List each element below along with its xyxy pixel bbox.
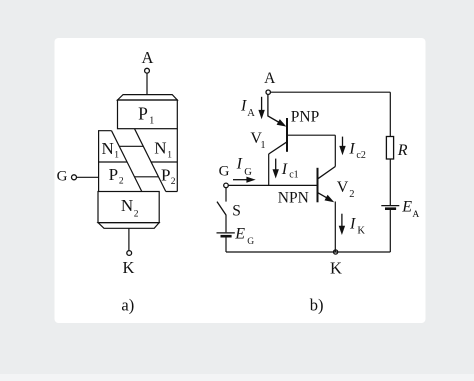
shear diagonal 1 bbox=[112, 131, 142, 192]
left column outline (N1/P2 left) bbox=[99, 131, 112, 192]
svg-text:G: G bbox=[247, 237, 254, 247]
terminal A circle (a) bbox=[145, 68, 150, 73]
label Ic2 bbox=[348, 140, 365, 161]
wire right branch to resistor bbox=[389, 92, 391, 136]
V2 collector diagonal bbox=[318, 167, 336, 179]
V1 emitter arrowhead (PNP) bbox=[277, 119, 287, 127]
wire V2 emitter to K bbox=[334, 202, 336, 253]
svg-text:1: 1 bbox=[114, 151, 119, 161]
svg-text:V: V bbox=[337, 179, 349, 196]
terminal G circle (b) bbox=[224, 183, 229, 188]
svg-text:E: E bbox=[234, 225, 245, 242]
svg-text:2: 2 bbox=[134, 209, 139, 219]
svg-text:G: G bbox=[57, 168, 68, 184]
transistor V2 base bar bbox=[317, 168, 319, 203]
svg-text:K: K bbox=[123, 258, 135, 277]
label V1 bbox=[250, 130, 265, 151]
wire Ic2 branch down bbox=[334, 135, 336, 166]
label N2 bbox=[121, 196, 139, 219]
wire battery EG to bottom rail bbox=[225, 238, 227, 253]
right column right edge bbox=[176, 129, 178, 192]
svg-text:E: E bbox=[401, 199, 412, 216]
arrow IG bbox=[233, 177, 256, 183]
node K circle (b) bbox=[334, 250, 338, 254]
svg-text:P: P bbox=[109, 165, 118, 184]
svg-text:I: I bbox=[349, 215, 356, 232]
battery EA bbox=[381, 206, 399, 209]
transistor V1 base bar bbox=[286, 118, 288, 152]
label V2 bbox=[337, 179, 355, 200]
switch S blade bbox=[217, 202, 226, 215]
band divider upper bbox=[119, 145, 143, 147]
arrow IK bbox=[339, 214, 345, 235]
wire A to P1 bbox=[146, 73, 148, 95]
wire G to P2 bbox=[77, 176, 99, 178]
label IG bbox=[236, 156, 253, 178]
svg-text:1: 1 bbox=[149, 116, 154, 127]
svg-text:I: I bbox=[348, 140, 355, 157]
battery EG bbox=[217, 233, 235, 236]
N1/P2 divider right bbox=[151, 161, 177, 163]
wire resistor to battery EA bbox=[389, 159, 391, 205]
svg-text:P: P bbox=[138, 104, 148, 124]
arrow IA bbox=[258, 97, 264, 119]
terminal K circle (a) bbox=[127, 251, 132, 256]
svg-text:c1: c1 bbox=[289, 170, 298, 181]
layer N2 box bbox=[98, 192, 159, 229]
svg-text:I: I bbox=[240, 98, 247, 115]
terminal G circle (a) bbox=[72, 175, 77, 180]
svg-text:A: A bbox=[142, 48, 154, 67]
wire N2 to K bbox=[128, 228, 130, 250]
N1/P2 divider left bbox=[99, 161, 127, 163]
arrow Ic1 bbox=[273, 159, 279, 179]
label P1 bbox=[138, 104, 154, 127]
svg-text:G: G bbox=[244, 167, 252, 178]
svg-text:a): a) bbox=[121, 295, 134, 314]
svg-text:1: 1 bbox=[260, 140, 265, 151]
label P2 left bbox=[109, 165, 124, 186]
svg-text:I: I bbox=[236, 156, 243, 173]
svg-text:A: A bbox=[264, 70, 276, 87]
arrow Ic2 bbox=[339, 137, 345, 156]
label N1 left bbox=[102, 139, 120, 161]
svg-text:P: P bbox=[161, 165, 170, 184]
right column bottom edge bbox=[166, 191, 178, 193]
node A circle (b) bbox=[266, 90, 270, 94]
shear diagonal 2 bbox=[135, 129, 166, 192]
label EA bbox=[401, 199, 419, 221]
svg-text:2: 2 bbox=[349, 189, 354, 200]
wire G circle down to switch bbox=[225, 188, 227, 202]
wire V1 base to Ic2 branch bbox=[287, 134, 335, 136]
svg-text:G: G bbox=[219, 163, 230, 179]
svg-text:N: N bbox=[121, 196, 133, 215]
svg-text:I: I bbox=[281, 161, 288, 178]
label IA bbox=[240, 98, 255, 120]
svg-text:K: K bbox=[357, 226, 365, 237]
label IK bbox=[349, 215, 365, 236]
svg-text:b): b) bbox=[310, 295, 324, 314]
wire A to top right corner bbox=[270, 91, 390, 93]
layer P1 box bbox=[118, 95, 178, 129]
wire battery EA to bottom rail bbox=[389, 210, 391, 252]
svg-text:1: 1 bbox=[167, 150, 172, 160]
V1 collector diagonal bbox=[269, 142, 287, 154]
band divider lower bbox=[135, 176, 159, 178]
V2 emitter diagonal bbox=[318, 193, 329, 199]
bottom rail wire bbox=[226, 251, 390, 253]
svg-text:c2: c2 bbox=[356, 150, 365, 161]
svg-text:PNP: PNP bbox=[291, 108, 319, 125]
label Ic1 bbox=[281, 161, 299, 181]
wire V1 collector down to gate rail bbox=[268, 154, 270, 186]
label EG bbox=[234, 225, 254, 247]
wire A down to V1 emitter bbox=[268, 94, 281, 123]
V2 emitter arrowhead (NPN) bbox=[325, 195, 335, 202]
resistor R bbox=[386, 137, 393, 160]
svg-text:2: 2 bbox=[119, 177, 124, 187]
svg-text:2: 2 bbox=[171, 177, 176, 187]
svg-text:N: N bbox=[154, 139, 166, 158]
wire G to V2 base bbox=[228, 184, 317, 186]
label N1 right bbox=[154, 139, 172, 161]
svg-text:N: N bbox=[102, 139, 114, 158]
svg-text:A: A bbox=[412, 210, 419, 220]
svg-text:R: R bbox=[397, 142, 408, 159]
svg-text:S: S bbox=[232, 202, 241, 219]
svg-text:K: K bbox=[330, 258, 342, 277]
svg-text:A: A bbox=[247, 108, 255, 119]
svg-text:NPN: NPN bbox=[278, 190, 309, 207]
wire switch to battery EG bbox=[225, 215, 227, 233]
label P2 right bbox=[161, 165, 176, 186]
